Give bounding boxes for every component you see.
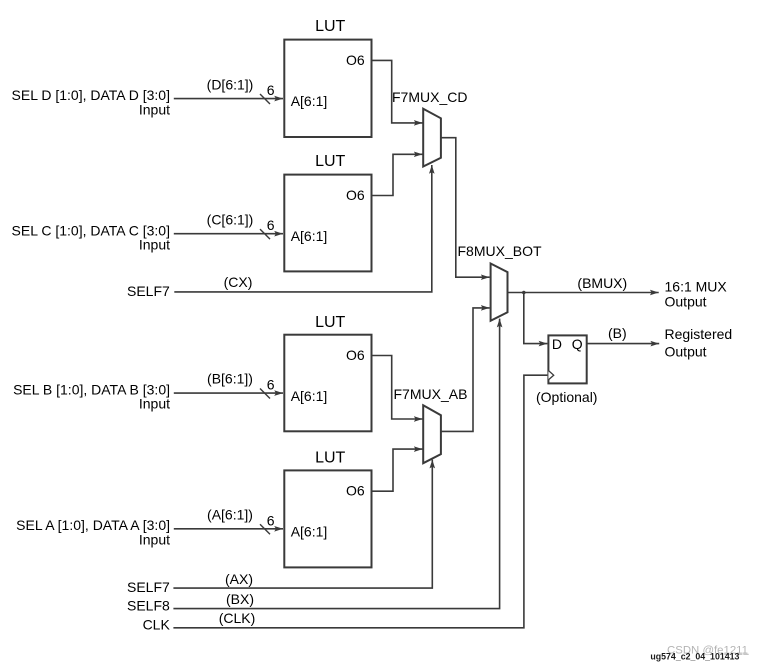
svg-text:Input: Input — [139, 102, 170, 118]
svg-text:(BMUX): (BMUX) — [577, 275, 627, 291]
svg-text:(B[6:1]): (B[6:1]) — [207, 371, 253, 387]
svg-text:A[6:1]: A[6:1] — [291, 524, 328, 540]
svg-text:O6: O6 — [346, 483, 365, 499]
svg-text:(A[6:1]): (A[6:1]) — [207, 506, 253, 522]
svg-text:F7MUX_AB: F7MUX_AB — [394, 386, 468, 402]
svg-text:(C[6:1]): (C[6:1]) — [207, 212, 254, 228]
svg-text:F7MUX_CD: F7MUX_CD — [392, 89, 467, 105]
svg-text:(AX): (AX) — [225, 571, 253, 587]
svg-text:6: 6 — [267, 82, 275, 98]
svg-text:ug574_c2_04_101413: ug574_c2_04_101413 — [650, 652, 739, 662]
svg-text:SELF8: SELF8 — [127, 598, 170, 614]
svg-text:CLK: CLK — [143, 616, 171, 632]
svg-text:A[6:1]: A[6:1] — [291, 228, 328, 244]
svg-text:F8MUX_BOT: F8MUX_BOT — [458, 243, 542, 259]
svg-text:LUT: LUT — [315, 153, 345, 170]
svg-text:(B): (B) — [608, 325, 627, 341]
svg-text:O6: O6 — [346, 52, 365, 68]
svg-text:6: 6 — [267, 512, 275, 528]
svg-text:(CLK): (CLK) — [219, 610, 256, 626]
svg-text:SELF7: SELF7 — [127, 283, 170, 299]
svg-text:SELF7: SELF7 — [127, 579, 170, 595]
svg-text:(BX): (BX) — [226, 591, 254, 607]
svg-text:A[6:1]: A[6:1] — [291, 93, 328, 109]
svg-text:A[6:1]: A[6:1] — [291, 388, 328, 404]
svg-text:6: 6 — [267, 217, 275, 233]
svg-text:LUT: LUT — [315, 314, 345, 331]
svg-text:(D[6:1]): (D[6:1]) — [207, 77, 254, 93]
svg-text:Output: Output — [665, 294, 707, 310]
svg-text:Input: Input — [139, 531, 170, 547]
svg-text:SEL D [1:0], DATA D [3:0]: SEL D [1:0], DATA D [3:0] — [12, 87, 170, 103]
svg-text:6: 6 — [267, 377, 275, 393]
svg-text:Input: Input — [139, 237, 170, 253]
svg-text:Registered: Registered — [665, 326, 733, 342]
svg-text:O6: O6 — [346, 187, 365, 203]
svg-text:Q: Q — [572, 336, 583, 352]
svg-text:16:1 MUX: 16:1 MUX — [665, 279, 728, 295]
svg-text:LUT: LUT — [315, 450, 345, 467]
svg-text:O6: O6 — [346, 347, 365, 363]
svg-text:Output: Output — [665, 344, 707, 360]
svg-text:Input: Input — [139, 396, 170, 412]
svg-text:(CX): (CX) — [224, 274, 253, 290]
svg-text:D: D — [552, 336, 562, 352]
svg-text:LUT: LUT — [315, 18, 345, 35]
svg-text:(Optional): (Optional) — [536, 389, 597, 405]
